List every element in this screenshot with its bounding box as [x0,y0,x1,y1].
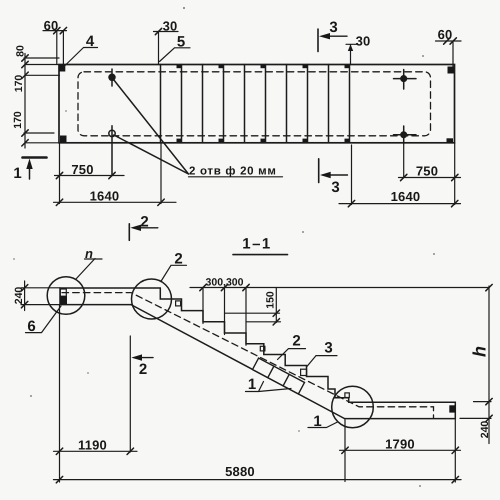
tread lines [161,65,350,143]
svg-text:6: 6 [27,318,35,335]
dim 750 left [55,143,125,204]
svg-text:80: 80 [15,45,27,57]
tread hook marks [177,65,350,142]
riser plates [176,301,181,306]
label 1 lower leader [308,422,338,428]
left dimension column 80/170/170 [24,54,60,149]
steps and lower landing outline [160,288,455,419]
svg-text:1640: 1640 [391,189,421,204]
landing end plates [60,289,66,296]
svg-text:750: 750 [416,164,438,179]
holes right with crosses [394,70,417,144]
label 2 mid leader [278,349,306,360]
label 3 mid leader [307,356,337,367]
svg-text:60: 60 [44,18,59,33]
svg-text:2: 2 [292,333,300,350]
detail circle 1 [332,386,374,428]
dim 1790 [340,419,461,482]
svg-text:1640: 1640 [90,189,120,204]
section marker 2 top [128,224,130,241]
title underline [233,254,288,256]
svg-text:2: 2 [174,251,182,268]
svg-text:5880: 5880 [225,464,255,479]
label 5 leader [160,48,191,62]
svg-text:1–1: 1–1 [242,236,272,253]
section texts [13,214,491,480]
svg-text:240: 240 [479,421,491,439]
detail circle 2 [132,279,172,319]
svg-text:60: 60 [438,27,453,42]
svg-text:1790: 1790 [385,437,415,452]
section cut band through flight [252,358,304,394]
label 6 leader [26,306,62,333]
svg-text:3: 3 [329,19,337,36]
svg-text:1: 1 [13,165,21,182]
plan hidden contour dashed [78,72,431,136]
holes left (2 otv) [109,74,115,80]
svg-text:5: 5 [177,34,185,51]
lower landing plate [449,405,455,412]
dim 1640 right [339,143,461,205]
svg-text:750: 750 [71,162,93,177]
dim 60 top-left [43,31,67,65]
label 4 leader [64,48,98,67]
dim 5880 [54,479,462,481]
svg-text:30: 30 [356,34,371,49]
label n leader [76,259,103,280]
svg-text:300,300: 300,300 [206,276,244,288]
svg-text:2 отв ф 20 мм: 2 отв ф 20 мм [189,166,277,178]
plan texts [12,18,452,204]
svg-text:1: 1 [248,376,256,393]
svg-text:170: 170 [12,111,24,129]
svg-text:1: 1 [313,413,321,430]
dim 30 top-right [346,44,358,64]
corner embedded plates [59,65,454,143]
section marker 3 bottom [318,159,320,183]
detail circle n [47,277,85,315]
svg-text:1190: 1190 [78,438,107,453]
hidden dashed line [62,293,434,419]
dim 750 right [399,144,461,178]
dim 1190 [54,305,138,482]
h dimension line [460,286,491,444]
label 2 upper leader [162,265,187,280]
section marker 3 top [317,29,319,52]
svg-text:n: n [85,246,93,261]
dim 1640 left [54,143,177,204]
svg-text:2: 2 [139,361,147,378]
svg-text:150: 150 [265,291,277,309]
flight soffit [131,305,345,419]
dim line 300,300 and long level line [190,287,489,289]
dim 30 top-left [154,32,179,65]
section marker 2 bottom + extension [129,336,131,452]
leaders to hole note [114,80,189,175]
svg-text:170: 170 [13,75,25,93]
svg-text:4: 4 [86,33,95,50]
svg-text:30: 30 [163,19,178,34]
plan outline [59,65,455,143]
svg-text:h: h [470,346,490,357]
label 1 cut leader [246,382,292,392]
note underline [189,176,283,178]
svg-text:3: 3 [331,179,339,196]
svg-text:3: 3 [324,340,332,357]
SECTION VIEW [21,224,492,483]
section marker 1 plan [23,156,47,159]
dim 60 top-right [436,41,462,67]
svg-text:240: 240 [13,287,25,305]
dim 240 left [21,281,60,311]
svg-text:2: 2 [140,214,148,231]
dim 150 [225,288,281,323]
upper landing slab [60,288,160,305]
